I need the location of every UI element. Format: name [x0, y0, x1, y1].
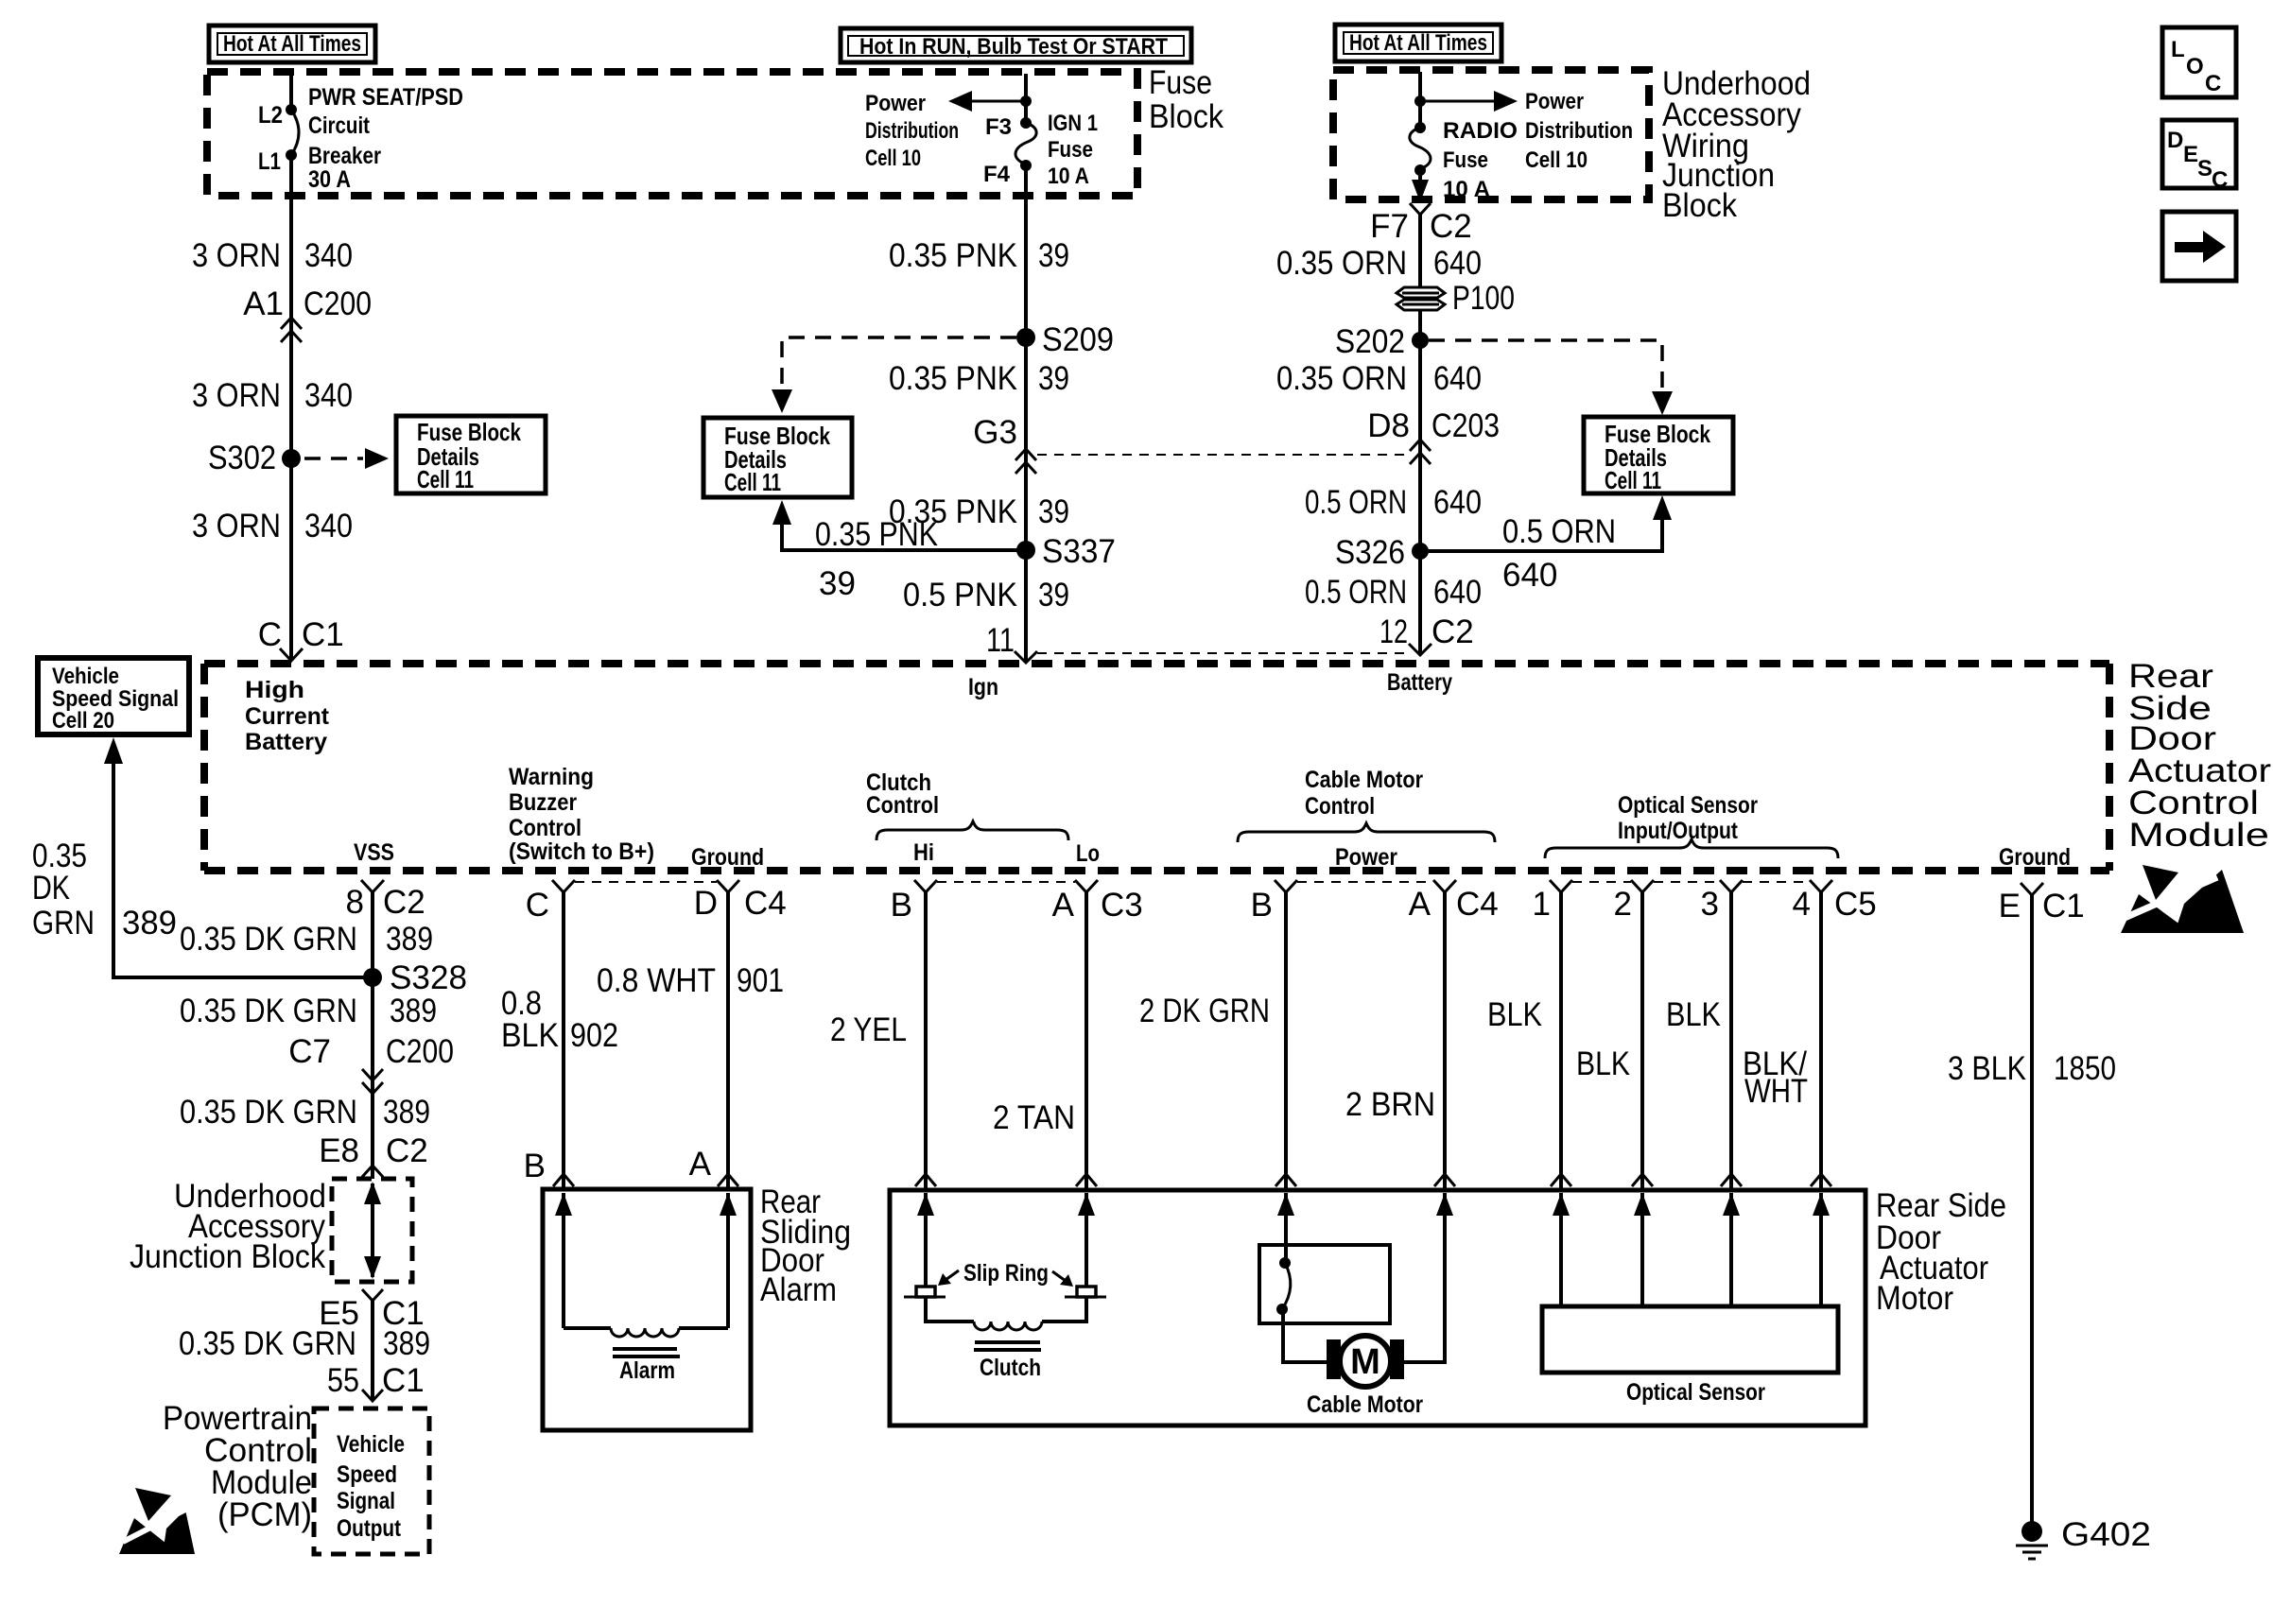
svg-text:C200: C200	[304, 285, 372, 322]
svg-text:39: 39	[819, 565, 856, 602]
svg-text:Junction Block: Junction Block	[130, 1238, 325, 1275]
ESD symbol (PCM)	[119, 1488, 195, 1554]
svg-text:3 BLK: 3 BLK	[1948, 1050, 2026, 1087]
svg-text:E: E	[1999, 888, 2021, 924]
svg-text:0.5 ORN: 0.5 ORN	[1305, 574, 1407, 611]
dashed link 11 to 12	[1037, 652, 1408, 654]
svg-text:Hot At All Times: Hot At All Times	[223, 31, 361, 57]
connector chevron VSS 8/C2	[361, 880, 384, 892]
svg-text:Cell 11: Cell 11	[417, 465, 474, 493]
connector chevrons 1 2 3 4 / C5	[1550, 880, 1572, 892]
svg-text:640: 640	[1433, 574, 1482, 611]
cable motor M	[1327, 1336, 1404, 1387]
svg-text:D8: D8	[1367, 407, 1410, 444]
svg-text:C7: C7	[288, 1033, 331, 1070]
svg-text:E8: E8	[319, 1132, 359, 1169]
svg-text:Lo: Lo	[1076, 840, 1100, 867]
connector chevron D/C4	[717, 880, 739, 892]
wire: VSS to PCM	[371, 1301, 374, 1401]
svg-text:340: 340	[304, 508, 353, 544]
svg-text:(Switch to B+): (Switch to B+)	[509, 838, 654, 865]
wire: pass-through arrows inside junction block	[371, 1183, 374, 1277]
wire: tap to power distribution arrow (right)	[1420, 100, 1498, 103]
svg-text:39: 39	[1038, 360, 1069, 397]
svg-text:B: B	[1251, 887, 1273, 924]
svg-text:C1: C1	[302, 616, 344, 653]
svg-text:Battery: Battery	[245, 729, 327, 755]
wire: IGN1 feed (x=1085) upper	[1024, 74, 1028, 123]
connector chevron B (clutch hi)	[914, 880, 937, 892]
fuse block dashed box (top left, PWR SEAT + IGN1)	[207, 72, 1137, 196]
DESC reference box	[2162, 120, 2236, 193]
svg-text:10 A: 10 A	[1443, 177, 1490, 202]
svg-text:B: B	[891, 887, 912, 924]
svg-text:Power: Power	[1525, 89, 1584, 114]
svg-text:Ground: Ground	[1999, 844, 2071, 871]
svg-text:30 A: 30 A	[308, 166, 351, 193]
slip ring right	[1077, 1287, 1096, 1297]
svg-text:Cell 20: Cell 20	[52, 708, 114, 734]
svg-text:340: 340	[304, 237, 353, 274]
clutch coil	[926, 1297, 974, 1322]
optical sensor wires inside motor box	[1559, 1193, 1563, 1306]
wire: battery feed down to module (x=1502)	[1418, 215, 1422, 654]
svg-text:BLK: BLK	[1666, 996, 1721, 1033]
svg-text:Buzzer: Buzzer	[509, 789, 577, 816]
node: power distribution tap (radio)	[1414, 95, 1426, 107]
svg-text:A: A	[1052, 887, 1075, 924]
svg-text:Hot At All Times: Hot At All Times	[1349, 30, 1487, 56]
wire: tap to power distribution arrow	[966, 100, 1026, 103]
svg-text:C: C	[258, 616, 282, 653]
svg-text:8: 8	[346, 884, 364, 921]
svg-text:Motor: Motor	[1876, 1280, 1953, 1317]
svg-text:1850: 1850	[2054, 1050, 2116, 1087]
svg-text:S302: S302	[208, 440, 276, 476]
svg-text:F3: F3	[985, 114, 1012, 140]
svg-text:0.35 PNK: 0.35 PNK	[889, 360, 1017, 397]
svg-text:0.5 PNK: 0.5 PNK	[903, 577, 1017, 613]
svg-text:Fuse: Fuse	[1048, 137, 1093, 163]
svg-text:Signal: Signal	[337, 1488, 395, 1514]
svg-text:C3: C3	[1101, 887, 1143, 924]
splice S326	[1412, 543, 1429, 560]
svg-text:3 ORN: 3 ORN	[192, 237, 281, 274]
wire: warning buzzer C (x=596)	[562, 892, 565, 1189]
svg-text:L: L	[2171, 37, 2185, 62]
svg-text:G3: G3	[973, 414, 1017, 451]
svg-text:Fuse: Fuse	[1443, 147, 1488, 173]
header box: Hot In RUN, Bulb Test Or START	[841, 28, 1191, 62]
connector chevrons at motor box (hi, lo, B, A, 1-4)	[915, 1174, 936, 1186]
wire: VSS output to vehicle speed signal box	[113, 762, 373, 977]
underhood accessory junction block dashed box	[332, 1179, 412, 1282]
connector F7 C2	[1410, 203, 1431, 215]
switch contacts inside	[1284, 1193, 1288, 1263]
svg-text:Input/Output: Input/Output	[1618, 818, 1739, 844]
svg-text:0.35 PNK: 0.35 PNK	[889, 237, 1017, 274]
svg-text:Ign: Ign	[968, 674, 998, 700]
svg-text:Current: Current	[245, 703, 330, 730]
dashed branch S202 to fuse block details 3	[1429, 340, 1662, 388]
svg-text:2: 2	[1614, 886, 1632, 923]
svg-text:Hot In RUN, Bulb Test Or START: Hot In RUN, Bulb Test Or START	[859, 34, 1168, 60]
svg-text:0.5 ORN: 0.5 ORN	[1305, 484, 1407, 521]
dashed link B-A connector C3	[937, 881, 1075, 883]
svg-text:640: 640	[1433, 245, 1482, 282]
wire: VSS (x=394) below module	[371, 892, 374, 1179]
connector chevron E/C1 (ground)	[2021, 883, 2043, 895]
splice S328	[363, 968, 382, 987]
svg-text:S202: S202	[1335, 323, 1405, 360]
svg-text:C203: C203	[1431, 407, 1500, 444]
svg-text:RADIO: RADIO	[1443, 118, 1518, 144]
svg-text:Optical Sensor: Optical Sensor	[1618, 792, 1758, 819]
svg-text:Cell 10: Cell 10	[865, 146, 921, 171]
underhood accessory wiring junction block dashed box	[1333, 70, 1649, 199]
splice S209	[1016, 328, 1035, 347]
wire: RADIO feed (x=1502) upper	[1418, 72, 1422, 128]
svg-text:0.35 DK GRN: 0.35 DK GRN	[180, 1094, 357, 1131]
fuse block details box 3	[1584, 417, 1733, 494]
arrow reference box	[2162, 212, 2236, 281]
svg-text:389: 389	[383, 1094, 430, 1131]
svg-text:C2: C2	[1431, 613, 1474, 650]
svg-text:Alarm: Alarm	[619, 1357, 675, 1384]
svg-text:B: B	[524, 1148, 546, 1184]
svg-text:1: 1	[1533, 886, 1551, 923]
svg-text:39: 39	[1038, 493, 1069, 530]
connector E5 C1	[362, 1289, 383, 1301]
splice S302	[282, 449, 301, 468]
svg-text:Cell 10: Cell 10	[1525, 147, 1588, 173]
svg-text:Hi: Hi	[913, 839, 934, 866]
svg-text:C: C	[526, 887, 549, 924]
svg-text:0.35 DK GRN: 0.35 DK GRN	[180, 921, 357, 958]
fuse block details box 2	[703, 418, 852, 497]
svg-text:BLK: BLK	[1576, 1045, 1630, 1082]
dashed link C203 to D8	[1037, 454, 1412, 456]
svg-text:BLK: BLK	[501, 1017, 559, 1054]
rear side door actuator motor box	[890, 1190, 1865, 1425]
svg-text:2 YEL: 2 YEL	[830, 1011, 907, 1048]
svg-text:2 TAN: 2 TAN	[993, 1099, 1075, 1136]
svg-text:C: C	[2212, 167, 2228, 193]
connector chevron A at alarm	[718, 1174, 738, 1186]
svg-text:39: 39	[1038, 577, 1069, 613]
svg-text:4: 4	[1793, 886, 1811, 923]
svg-text:Warning: Warning	[509, 764, 594, 790]
wire: clutch hi (x=979)	[924, 892, 928, 1190]
svg-text:D: D	[2167, 128, 2183, 153]
svg-text:0.35 ORN: 0.35 ORN	[1276, 245, 1407, 282]
wire: switch to motor brush	[1283, 1309, 1327, 1362]
svg-text:Cable Motor: Cable Motor	[1307, 1391, 1423, 1418]
svg-text:Optical Sensor: Optical Sensor	[1626, 1379, 1765, 1406]
rear side door actuator control module dashed box	[204, 660, 2109, 667]
header box: Hot At All Times (right)	[1335, 25, 1501, 61]
svg-text:C: C	[2205, 71, 2221, 96]
svg-text:10 A: 10 A	[1048, 164, 1089, 189]
svg-text:Power: Power	[1335, 844, 1397, 871]
svg-text:12: 12	[1379, 613, 1408, 650]
svg-text:S326: S326	[1335, 534, 1405, 571]
svg-text:Cell 11: Cell 11	[724, 468, 781, 496]
svg-text:L1: L1	[258, 148, 281, 175]
wire: clutch lo (x=1149)	[1084, 892, 1088, 1190]
rear sliding door alarm box	[543, 1189, 751, 1430]
svg-text:389: 389	[386, 921, 433, 958]
svg-text:G402: G402	[2061, 1516, 2151, 1553]
svg-text:Fuse: Fuse	[1149, 64, 1212, 101]
svg-text:High: High	[245, 677, 304, 703]
wire: IGN down to module (x=1085)	[1024, 165, 1028, 662]
svg-text:0.35 PNK: 0.35 PNK	[815, 516, 938, 553]
connector chevron A/C4 (cable motor)	[1433, 880, 1456, 892]
svg-text:3 ORN: 3 ORN	[192, 508, 281, 544]
svg-text:DK: DK	[32, 870, 70, 907]
svg-text:3: 3	[1701, 886, 1719, 923]
svg-text:3 ORN: 3 ORN	[192, 377, 281, 414]
wire: S337 branch to fuse block details 2	[782, 522, 1026, 550]
connector chevron C	[552, 880, 575, 892]
svg-text:F7: F7	[1370, 208, 1409, 245]
alarm sounder coil	[564, 1326, 611, 1330]
svg-text:C2: C2	[1430, 208, 1472, 245]
svg-text:Module: Module	[2128, 817, 2269, 854]
svg-text:Distribution: Distribution	[865, 118, 959, 144]
svg-text:A: A	[689, 1146, 712, 1183]
fuse IGN 1 10A (F3-F4)	[1020, 117, 1032, 129]
svg-text:Control: Control	[1305, 793, 1375, 820]
alarm entry arrows	[562, 1193, 565, 1328]
wire: power seat feed (x=308) upper	[289, 74, 293, 110]
splice S202	[1412, 332, 1429, 349]
optical sensor box	[1542, 1306, 1838, 1373]
dashed link 1-4 connector C5	[1572, 881, 1810, 883]
svg-text:55: 55	[327, 1362, 359, 1399]
svg-text:C4: C4	[744, 885, 787, 922]
vehicle speed signal box	[38, 658, 189, 734]
svg-text:(PCM): (PCM)	[217, 1496, 312, 1533]
cable motor switch box	[1259, 1245, 1390, 1323]
svg-text:0.35 DK GRN: 0.35 DK GRN	[179, 1325, 356, 1362]
wire: motor to A	[1404, 1193, 1445, 1362]
svg-text:Output: Output	[337, 1515, 402, 1542]
svg-text:Cell 11: Cell 11	[1605, 466, 1661, 494]
svg-text:L2: L2	[258, 102, 283, 129]
wire: cable motor B (x=1360)	[1284, 892, 1288, 1190]
svg-text:O: O	[2186, 54, 2204, 79]
svg-text:M: M	[1350, 1342, 1380, 1382]
fuse block details box 1	[396, 416, 546, 493]
svg-text:389: 389	[390, 993, 437, 1029]
svg-text:GRN: GRN	[32, 905, 95, 942]
svg-text:C2: C2	[383, 884, 425, 921]
svg-text:F4: F4	[983, 162, 1011, 187]
connector chevron A/C3 (clutch lo)	[1075, 880, 1098, 892]
circuit breaker PWR SEAT/PSD 30A	[286, 104, 297, 115]
svg-text:0.5 ORN: 0.5 ORN	[1502, 513, 1616, 550]
svg-text:WHT: WHT	[1744, 1073, 1808, 1110]
svg-text:Cable Motor: Cable Motor	[1305, 767, 1423, 793]
svg-text:S328: S328	[390, 959, 467, 996]
svg-text:39: 39	[1038, 237, 1069, 274]
svg-text:Vehicle: Vehicle	[52, 664, 119, 689]
svg-text:P100: P100	[1452, 280, 1515, 317]
LOC reference box	[2162, 27, 2236, 97]
wire: power seat feed down to module (x=308)	[289, 155, 293, 660]
svg-text:Vehicle: Vehicle	[337, 1431, 405, 1458]
svg-text:C2: C2	[386, 1132, 428, 1169]
motor box entry arrows	[917, 1193, 934, 1216]
svg-text:PWR SEAT/PSD: PWR SEAT/PSD	[308, 84, 463, 111]
svg-text:S209: S209	[1042, 321, 1114, 358]
svg-text:340: 340	[304, 377, 353, 414]
wire: S326 branch to fuse block details 3	[1420, 516, 1662, 551]
wire: ground E (x=2149)	[2030, 895, 2034, 1522]
dashed link B-A connector C4	[1297, 881, 1433, 883]
svg-text:2 BRN: 2 BRN	[1345, 1086, 1435, 1123]
svg-text:Distribution: Distribution	[1525, 118, 1633, 144]
ESD symbol (module)	[2121, 865, 2244, 933]
svg-text:C4: C4	[1456, 886, 1499, 923]
svg-text:389: 389	[383, 1325, 430, 1362]
wire: radio feed exits box with down arrow	[1418, 170, 1422, 195]
ground G402	[2016, 1516, 2151, 1559]
svg-text:901: 901	[737, 962, 784, 999]
svg-text:A1: A1	[243, 285, 284, 322]
svg-text:Control: Control	[509, 815, 581, 841]
svg-text:Speed: Speed	[337, 1461, 397, 1488]
wires: optical sensor 1-4	[1559, 892, 1563, 1190]
svg-text:D: D	[694, 885, 718, 922]
svg-text:Alarm: Alarm	[760, 1271, 837, 1308]
svg-text:Battery: Battery	[1387, 669, 1452, 696]
svg-text:Block: Block	[1149, 98, 1223, 135]
powertrain control module dashed box	[314, 1408, 429, 1554]
dashed arrow S302 to fuse block details	[304, 457, 363, 460]
svg-text:Block: Block	[1662, 187, 1737, 224]
svg-text:IGN 1: IGN 1	[1048, 111, 1098, 136]
svg-text:Control: Control	[866, 792, 939, 819]
clutch wires inside motor box	[924, 1193, 928, 1287]
svg-text:A: A	[1409, 886, 1431, 923]
svg-text:640: 640	[1433, 484, 1482, 521]
svg-text:S: S	[2197, 156, 2212, 181]
svg-text:S337: S337	[1042, 533, 1116, 570]
inline connector P100	[1397, 280, 1515, 317]
svg-text:Power: Power	[865, 91, 926, 116]
svg-text:389: 389	[122, 905, 177, 942]
fuse RADIO 10A	[1414, 122, 1426, 133]
wire: cable motor A (x=1528)	[1443, 892, 1447, 1190]
svg-text:C1: C1	[382, 1362, 425, 1399]
svg-text:640: 640	[1433, 360, 1482, 397]
svg-text:E: E	[2183, 142, 2198, 167]
connector chevron B (cable motor)	[1275, 880, 1297, 892]
svg-text:Ground: Ground	[691, 844, 764, 871]
svg-text:11: 11	[986, 622, 1015, 659]
splice S337	[1016, 541, 1035, 560]
node: power distribution tap (IGN)	[1020, 95, 1032, 107]
svg-text:Clutch: Clutch	[980, 1355, 1041, 1381]
svg-text:C1: C1	[2042, 888, 2085, 924]
svg-text:0.35 DK GRN: 0.35 DK GRN	[180, 993, 357, 1029]
wire: ground D (x=770)	[726, 892, 730, 1189]
dashed branch S209 to fuse block details 2	[782, 337, 1016, 386]
header box: Hot At All Times (left)	[209, 26, 375, 62]
svg-text:902: 902	[570, 1017, 618, 1054]
slip ring left	[916, 1287, 935, 1297]
svg-text:C200: C200	[386, 1033, 454, 1070]
svg-text:0.8 WHT: 0.8 WHT	[597, 962, 716, 999]
svg-text:Breaker: Breaker	[308, 143, 381, 169]
svg-text:BLK: BLK	[1487, 996, 1542, 1033]
svg-text:Slip Ring: Slip Ring	[963, 1260, 1049, 1287]
svg-text:640: 640	[1502, 557, 1557, 594]
svg-text:Circuit: Circuit	[308, 112, 371, 139]
svg-text:VSS: VSS	[354, 839, 394, 866]
svg-text:C5: C5	[1834, 886, 1877, 923]
dashed link C-D connector C4	[575, 881, 717, 883]
svg-text:0.35 ORN: 0.35 ORN	[1276, 360, 1407, 397]
connector chevron B at alarm	[553, 1174, 574, 1186]
svg-text:2 DK GRN: 2 DK GRN	[1139, 993, 1270, 1029]
